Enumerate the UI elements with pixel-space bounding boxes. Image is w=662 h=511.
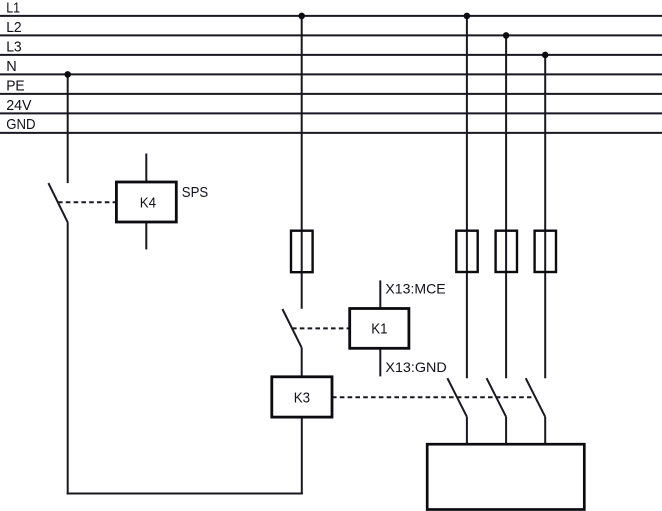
svg-text:K3: K3 [294, 389, 310, 406]
bus GND [0, 132, 662, 134]
contact motor phase 1 blade [447, 378, 467, 417]
svg-text:GND: GND [6, 116, 35, 133]
bus L2 [0, 34, 662, 36]
wire coil K4 bottom stub [145, 222, 147, 249]
fuse F2 [456, 231, 477, 272]
wire L1 drop through fuse F1 to contact [301, 16, 303, 309]
wire phase 1 to motor [466, 417, 468, 446]
dashed link coil K3 to motor contacts [332, 396, 531, 398]
wire phase 2 to motor [505, 417, 507, 446]
svg-text:X13:GND: X13:GND [385, 359, 446, 375]
svg-text:L1: L1 [6, 0, 20, 16]
coil K4 [116, 182, 176, 222]
fuse F1 [291, 231, 313, 273]
node N / K4 branch [64, 71, 71, 78]
wire contact to coil K3 [301, 348, 303, 377]
wire L3 drop phase 3 through fuse F4 [544, 55, 546, 378]
wire L2 drop phase 2 through fuse F3 [505, 35, 507, 378]
contact K3-line blade [282, 309, 301, 348]
wire coil K4 top stub [145, 154, 147, 183]
wire contact K4 down to bottom rail [67, 222, 69, 494]
fuse F4 [535, 231, 556, 272]
node L3 / phase 3 [542, 52, 549, 59]
wire coil K1 top stub X13:MCE [379, 280, 381, 308]
wire N drop to contact K4 [67, 74, 69, 183]
dashed link contact to coil K4 [58, 201, 116, 203]
node L1 / phase 1 [464, 13, 471, 20]
svg-text:X13:MCE: X13:MCE [385, 281, 445, 297]
svg-text:N: N [6, 58, 17, 75]
wire phase 3 to motor [544, 417, 546, 446]
wire L1 drop phase 1 through fuse F2 [466, 16, 468, 378]
svg-text:L2: L2 [6, 19, 22, 36]
svg-text:PE: PE [6, 77, 25, 94]
fuse F3 [496, 231, 517, 272]
contact motor phase 3 blade [526, 378, 546, 417]
wire bottom rail [67, 493, 303, 495]
wire K3 bottom drop [301, 417, 303, 494]
svg-text:K1: K1 [371, 321, 387, 338]
svg-text:24V: 24V [6, 97, 31, 114]
motor block [427, 444, 584, 509]
coil K3 [272, 377, 332, 417]
svg-text:SPS: SPS [182, 184, 208, 201]
contact motor phase 2 blade [487, 378, 507, 417]
coil K1 [350, 309, 409, 349]
svg-text:K4: K4 [140, 194, 156, 211]
svg-text:L3: L3 [6, 38, 22, 55]
dashed link contact to coil K1 [292, 327, 350, 329]
bus N [0, 73, 662, 75]
contact K4 blade [48, 183, 67, 222]
node L2 / phase 2 [503, 32, 510, 39]
wire coil K1 bottom stub X13:GND [379, 348, 381, 376]
bus PE [0, 93, 662, 95]
bus L3 [0, 54, 662, 56]
bus 24V [0, 112, 662, 114]
bus L1 [0, 15, 662, 17]
node L1 / K3 branch [298, 13, 305, 20]
